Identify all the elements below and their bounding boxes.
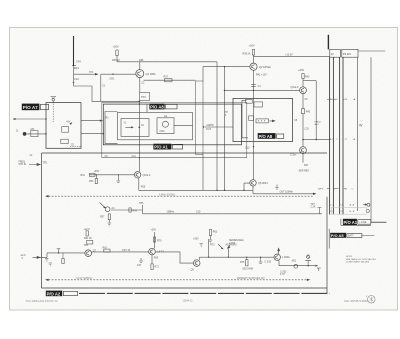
transistor Q7 <box>85 250 92 257</box>
wire dashed <box>70 145 81 147</box>
wire long <box>139 189 253 191</box>
node junction tick <box>72 65 76 67</box>
wire Q8 emitter down <box>151 255 153 264</box>
wire Q5 base stub <box>244 183 250 190</box>
node arrow <box>313 193 316 195</box>
svg-text:TP1: TP1 <box>89 71 94 74</box>
node junction <box>103 133 104 134</box>
svg-text:P/O A8: P/O A8 <box>259 134 273 139</box>
node tick <box>203 126 205 128</box>
resistor R39 <box>252 50 254 56</box>
wire branch to test point <box>74 73 95 75</box>
svg-text:A - A: A - A <box>350 204 355 207</box>
transistor Q5 <box>250 180 256 186</box>
board label P/O A1 bracket <box>341 219 371 226</box>
attenuator box <box>31 131 38 137</box>
svg-text:TP5: TP5 <box>43 162 48 165</box>
connector circle <box>366 209 369 212</box>
svg-text:R51: R51 <box>81 174 86 177</box>
svg-text:ADJ: ADJ <box>292 259 297 262</box>
wire Q6 emitter <box>138 178 140 190</box>
wire <box>116 56 118 62</box>
svg-text:+20V: +20V <box>249 44 255 48</box>
resistor R71 <box>151 264 153 270</box>
svg-text:C31: C31 <box>305 128 310 131</box>
wire <box>100 74 102 101</box>
svg-text:R67: R67 <box>103 246 108 249</box>
wire dashed primary <box>49 279 307 281</box>
svg-text:TP8: TP8 <box>84 244 89 247</box>
wire top-left vertical feed <box>73 36 75 66</box>
resistor R43 <box>302 74 304 79</box>
svg-text:J3/P3: J3/P3 <box>318 188 324 190</box>
wire dashed <box>52 101 54 122</box>
wire <box>139 62 141 70</box>
svg-text:W: W <box>359 123 363 127</box>
node junction <box>208 257 209 258</box>
svg-text:P/O A7: P/O A7 <box>23 105 38 110</box>
wire main vertical <box>138 101 140 171</box>
svg-text:FREQ: FREQ <box>19 162 26 164</box>
wire osc out <box>174 125 193 127</box>
ornament circled star <box>368 296 376 304</box>
node arrow input <box>13 118 16 120</box>
test point TP3 <box>51 97 57 99</box>
connector column P2 pins <box>339 57 341 214</box>
svg-text:Q6 E-F: Q6 E-F <box>143 174 152 177</box>
wire step to center <box>74 86 140 101</box>
board box A8 <box>103 104 241 145</box>
wire to Q3 <box>225 89 300 91</box>
node junction <box>316 139 317 140</box>
node adjust arrow <box>227 245 230 249</box>
wire Q5 emitter <box>252 186 254 194</box>
node junction <box>302 139 303 140</box>
svg-text:+20V: +20V <box>94 170 100 173</box>
wire thick connector stub <box>327 35 329 50</box>
connector T stub <box>318 208 322 214</box>
wire dashed signal path <box>49 195 315 197</box>
svg-text:2.2K: 2.2K <box>311 206 316 209</box>
oscillator circle G1 <box>162 121 168 127</box>
svg-text:C13: C13 <box>245 147 250 150</box>
wire <box>315 81 317 140</box>
box <box>87 240 93 244</box>
wire main vertical <box>253 98 255 179</box>
svg-text:Q1 1854: Q1 1854 <box>146 72 157 76</box>
resistor R10 <box>249 116 254 120</box>
node arrow <box>270 120 275 122</box>
resistor R75 <box>246 260 248 266</box>
connector box P2 <box>342 49 358 57</box>
wire Q1 base <box>101 73 136 75</box>
capacitor ground <box>200 244 203 247</box>
faint row frame <box>331 207 366 214</box>
wire <box>95 175 97 179</box>
transistor Q3 <box>300 87 307 94</box>
potentiometer circle <box>294 264 298 268</box>
board label P/O A1 <box>343 219 357 225</box>
board box A8 right <box>233 98 293 141</box>
oscillator box <box>157 118 174 134</box>
svg-text:P2 W1: P2 W1 <box>343 52 351 56</box>
wire supply rail <box>117 61 217 63</box>
board label value box <box>172 144 182 149</box>
svg-text:A2Q5: A2Q5 <box>229 242 236 245</box>
wire long output lower <box>143 213 323 215</box>
capacitor ground <box>209 236 213 244</box>
board label P/O A1 <box>153 144 171 150</box>
svg-text:P/O A1: P/O A1 <box>344 220 358 225</box>
wire cable line W <box>370 57 372 222</box>
wire A5 drop <box>328 229 330 249</box>
resistor R61 <box>86 231 88 236</box>
wire <box>38 253 48 258</box>
svg-text:+20V: +20V <box>298 68 304 72</box>
board box A7 <box>46 103 81 149</box>
capacitor C15 <box>117 175 121 183</box>
board label P/O A8 <box>149 104 164 110</box>
svg-text:OSC: OSC <box>160 130 165 133</box>
svg-text:R43: R43 <box>305 76 310 79</box>
svg-text:P/O A8: P/O A8 <box>150 104 164 109</box>
node arrow out <box>315 265 318 267</box>
svg-text:OUT: OUT <box>206 128 212 131</box>
svg-text:R31: R31 <box>74 66 79 70</box>
wire Q10 collector up arrow <box>278 248 280 254</box>
svg-text:+5MHz: +5MHz <box>206 124 214 127</box>
wire bracket shield <box>242 100 248 138</box>
resistor R3 <box>62 127 69 133</box>
connector T stub <box>317 268 321 271</box>
svg-text:5 MHz SIGNAL: 5 MHz SIGNAL <box>159 193 176 196</box>
board label value box <box>358 220 371 225</box>
svg-text:Q2 1854A: Q2 1854A <box>259 65 271 69</box>
svg-text:P/O A2: P/O A2 <box>47 291 61 296</box>
wire <box>92 251 149 253</box>
wire to A8 upper <box>81 120 103 122</box>
wire vertical bus <box>224 67 226 191</box>
node arrow <box>69 122 72 125</box>
node junction <box>45 133 46 134</box>
svg-text:Q5 0034: Q5 0034 <box>258 182 268 185</box>
transistor Q9 <box>193 260 200 267</box>
wire Q9 collector riser <box>208 239 210 257</box>
wire A5 rail <box>362 234 374 236</box>
board label P/O A7 <box>22 104 40 111</box>
wire top right rail <box>358 50 385 52</box>
svg-text:OUT 10MHz: OUT 10MHz <box>280 191 294 194</box>
svg-text:R47: R47 <box>304 164 309 167</box>
resistor R59 <box>129 208 131 212</box>
svg-text:+12.6: +12.6 <box>84 228 91 231</box>
wire <box>302 79 304 87</box>
board label value box <box>64 291 78 295</box>
svg-text:R73: R73 <box>210 244 215 247</box>
board box A2 top edge <box>42 152 328 154</box>
svg-text:R69: R69 <box>154 257 159 260</box>
test point box 2 <box>254 102 263 107</box>
svg-text:L.033A: L.033A <box>282 256 290 259</box>
svg-text:R55: R55 <box>141 186 146 189</box>
connector circle <box>367 203 370 206</box>
resistor R33 <box>116 50 118 56</box>
node arrow dashed left <box>45 195 48 197</box>
node junction <box>253 146 254 147</box>
capacitor C29 <box>259 257 263 263</box>
shield box inner <box>118 112 193 139</box>
wire output <box>253 193 313 195</box>
wire Q9 out <box>200 257 275 260</box>
resistor R67 <box>104 249 110 252</box>
wire Q1 collector out <box>144 79 196 81</box>
resistor R65 <box>62 259 64 264</box>
svg-text:820 OHM: 820 OHM <box>243 267 253 270</box>
wire <box>253 55 255 63</box>
board label P/O A2 <box>46 291 62 297</box>
input network box <box>89 173 95 176</box>
node arrow <box>95 73 99 75</box>
resistor R53 <box>95 179 97 184</box>
node tick <box>73 82 75 84</box>
svg-text:R71: R71 <box>155 266 160 269</box>
svg-text:STD IN: STD IN <box>19 164 27 166</box>
svg-text:SEE TABLE 8-1 FOR VALUES: SEE TABLE 8-1 FOR VALUES <box>346 258 376 261</box>
svg-text:R53: R53 <box>89 180 94 183</box>
capacitor ground <box>108 220 112 226</box>
svg-text:R70: R70 <box>157 240 162 243</box>
test point box <box>246 99 253 103</box>
svg-text:10MHz: 10MHz <box>167 210 175 213</box>
wire input arrow <box>29 163 40 165</box>
svg-text:+ LINE: + LINE <box>359 221 367 224</box>
transistor Q4 <box>300 147 307 154</box>
svg-text:BATT: BATT <box>348 235 354 238</box>
trimmer bar <box>305 260 311 265</box>
node arrow dashed left <box>45 279 48 281</box>
oven box <box>121 119 149 137</box>
transistor Q6 <box>134 172 140 178</box>
node arrow <box>100 120 103 122</box>
wire <box>73 66 75 86</box>
wire <box>202 67 204 81</box>
node junction <box>224 90 225 91</box>
board label value box <box>277 134 284 138</box>
delay box <box>256 119 269 123</box>
resistor R70 <box>153 237 155 242</box>
svg-text:4.7K: 4.7K <box>280 273 285 276</box>
board box A2 right edge <box>326 197 328 293</box>
connector column J2 pins <box>329 57 331 214</box>
board box A8 outer shield <box>102 102 247 157</box>
svg-text:R37: R37 <box>164 76 169 79</box>
wire Q8 collector feed <box>154 232 156 248</box>
node arrow dashed right <box>307 279 310 281</box>
svg-text:R45: R45 <box>306 111 311 114</box>
resistor R57 <box>108 214 110 220</box>
wire pin row <box>303 139 330 141</box>
svg-text:+8V: +8V <box>66 121 71 124</box>
svg-text:10544-21: 10544-21 <box>183 300 194 303</box>
svg-text:NOTE:: NOTE: <box>346 256 353 258</box>
svg-text:R35: R35 <box>139 59 144 62</box>
trimmer circle <box>307 255 310 258</box>
svg-text:CR1: CR1 <box>110 78 115 81</box>
wire Q10 emitter <box>278 260 280 265</box>
right mid cluster: resistor R63 <box>209 230 211 236</box>
capacitor C23 ground <box>49 263 52 266</box>
svg-text:R57: R57 <box>100 216 105 219</box>
wire stub <box>146 104 148 112</box>
svg-text:R63: R63 <box>213 231 218 234</box>
svg-text:R59: R59 <box>133 210 138 213</box>
svg-text:C.9xx: C.9xx <box>290 154 297 157</box>
wire input arrow <box>33 256 41 258</box>
wire Q1 emitter <box>139 78 141 102</box>
transistor Q8 <box>149 248 156 255</box>
svg-text:B - B: B - B <box>350 211 355 213</box>
node junction <box>112 73 114 75</box>
svg-text:TP6: TP6 <box>139 202 144 205</box>
capacitor C4 <box>251 85 255 87</box>
svg-text:ADJ: ADJ <box>315 123 319 126</box>
cable W1 box <box>196 81 204 155</box>
svg-text:R75: R75 <box>240 261 245 264</box>
capacitor C25 <box>57 249 60 253</box>
capacitor C27 <box>139 258 143 263</box>
svg-text:P/O A5: P/O A5 <box>331 233 344 238</box>
svg-text:-12.6V SUPPLY: -12.6V SUPPLY <box>76 277 93 280</box>
node adjust arrow <box>100 203 106 209</box>
wire A1 rail <box>371 221 387 223</box>
svg-text:SER REG: SER REG <box>299 170 310 173</box>
board label value box <box>347 234 362 238</box>
board box A2 bottom edge <box>42 287 328 289</box>
node junction <box>139 101 140 102</box>
wire rail to connector <box>254 55 330 57</box>
svg-text:PRIMARY SUPPLIES ON: PRIMARY SUPPLIES ON <box>237 277 265 280</box>
svg-text:P/O A1: P/O A1 <box>154 145 168 150</box>
wire <box>302 114 304 147</box>
svg-text:TP2: TP2 <box>141 95 146 99</box>
transistor Q2 <box>250 63 257 70</box>
transistor arrow crystal <box>126 126 132 128</box>
wire vertical bus <box>216 62 218 191</box>
capacitor C21 ground <box>45 258 48 261</box>
node junction <box>45 118 46 119</box>
node adjust arrow <box>218 244 223 249</box>
connector box J2 <box>330 49 341 57</box>
svg-text:C.033: C.033 <box>265 261 272 264</box>
wire Q6 base <box>90 174 135 176</box>
wire <box>202 155 204 191</box>
node junction <box>58 252 59 253</box>
svg-text:R41 +13V: R41 +13V <box>256 74 267 77</box>
svg-text:C27: C27 <box>137 264 142 267</box>
wire Q3 emitter <box>302 94 304 109</box>
svg-text:R39 2K: R39 2K <box>243 53 251 56</box>
svg-text:+12.6V: +12.6V <box>285 54 293 57</box>
wire output bottom <box>279 265 315 267</box>
wire feedback loop <box>105 112 118 144</box>
wire step to Q9 <box>155 252 193 263</box>
wire to A8 lower <box>81 133 103 135</box>
node junction <box>216 190 217 191</box>
wire Q2 emitter <box>253 70 255 98</box>
capacitor C17 <box>275 185 278 190</box>
wire <box>111 209 143 211</box>
shield bottom line <box>102 157 247 159</box>
svg-text:+20V: +20V <box>113 45 119 49</box>
board label P/O A5 <box>330 233 346 238</box>
svg-text:CR4: CR4 <box>76 61 81 64</box>
wire <box>227 248 229 257</box>
wire cable line <box>357 57 359 211</box>
node junction <box>139 127 141 129</box>
svg-text:C12: C12 <box>74 77 79 81</box>
wire Q4 emitter <box>302 154 304 163</box>
wire input upper <box>16 118 47 120</box>
node arrow <box>363 204 367 206</box>
node junction <box>224 66 225 67</box>
transistor Q11 <box>105 207 110 212</box>
svg-text:AT1: AT1 <box>30 128 35 131</box>
svg-text:COMPONENT VALUES: COMPONENT VALUES <box>346 260 370 263</box>
svg-text:FIG. OUTPUT ASSY: FIG. OUTPUT ASSY <box>345 299 369 303</box>
resistor R37 <box>165 79 173 82</box>
resistor R5 <box>61 139 68 143</box>
svg-text:Q3 E-F: Q3 E-F <box>291 86 300 89</box>
svg-text:+20V: +20V <box>151 229 157 232</box>
wire bottom dark rail <box>79 292 330 294</box>
connector terminal J1 <box>23 132 27 136</box>
svg-text:TCC 10544-A01 P10 OF 12: TCC 10544-A01 P10 OF 12 <box>26 299 59 303</box>
svg-text:FREQ: FREQ <box>315 121 321 123</box>
node junction <box>253 90 254 91</box>
resistor R45 <box>301 109 304 114</box>
test point box TP2 <box>140 92 150 100</box>
wire branch <box>303 80 316 82</box>
wire to Q2 base <box>203 66 250 68</box>
board box A2 left edge <box>41 153 43 288</box>
wire chain left <box>47 252 85 254</box>
board label P/O A8 second <box>258 133 276 139</box>
transistor Q10 <box>274 254 280 260</box>
wire input lower <box>27 133 46 135</box>
board label value box <box>40 104 48 109</box>
transistor Q1 <box>136 70 144 78</box>
svg-text:CR7 1K: CR7 1K <box>122 249 131 252</box>
svg-text:R33 1K: R33 1K <box>112 59 120 62</box>
svg-text:R61 2K: R61 2K <box>84 237 92 240</box>
wire <box>142 205 144 214</box>
svg-text:+20V: +20V <box>193 238 199 241</box>
wire to right board <box>203 126 233 128</box>
board label value box <box>165 104 177 109</box>
svg-text:C19: C19 <box>196 210 201 213</box>
